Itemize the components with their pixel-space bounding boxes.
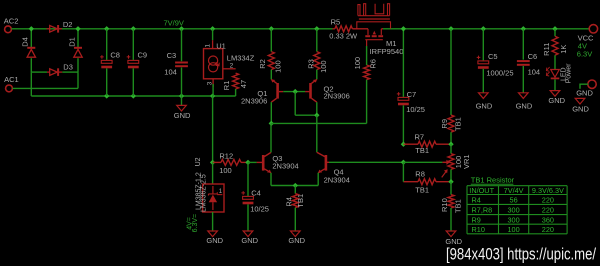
wire 7V/9V top rail left part	[11, 28, 332, 30]
wire 7V/9V top rail right part	[383, 28, 590, 30]
wire node to R10	[450, 182, 452, 195]
svg-text:C3: C3	[167, 51, 177, 60]
svg-text:AC2: AC2	[4, 17, 19, 26]
svg-text:6.3V: 6.3V	[577, 50, 592, 59]
svg-text:100: 100	[508, 225, 520, 234]
svg-text:R6: R6	[368, 59, 377, 69]
label GND below R4	[288, 236, 305, 245]
svg-text:C5: C5	[488, 52, 498, 61]
value TB1 of R8	[415, 185, 429, 194]
label R10	[440, 198, 449, 212]
wire R1 to bottom rail	[235, 89, 237, 96]
label U1	[216, 41, 226, 50]
net note 4V	[578, 41, 587, 50]
label Q4	[334, 167, 344, 176]
wire to Q3 base	[248, 161, 257, 163]
label R3	[306, 59, 315, 69]
wire Q1 base to Q2 base	[283, 91, 305, 93]
label GND below C6	[516, 102, 533, 111]
label C7	[407, 90, 417, 99]
label Q1	[257, 89, 267, 98]
net label GND at pin	[576, 89, 593, 98]
value 2N3904 of Q4	[324, 175, 350, 184]
wire D3 anode side	[31, 71, 47, 73]
wire rail to U1 pin 1	[212, 29, 214, 40]
transistor M1 P-MOSFET	[365, 29, 383, 46]
wire C7 to R7 node	[402, 105, 404, 144]
value TB1 of R9	[454, 117, 463, 131]
svg-text:R7,R8: R7,R8	[472, 206, 493, 215]
svg-text:220: 220	[542, 206, 554, 215]
svg-text:R4: R4	[284, 197, 293, 207]
wire D1 anode down	[77, 58, 79, 72]
op-amp U1 current source body	[204, 40, 236, 87]
U1 pin 1 label	[205, 44, 212, 48]
label U2	[195, 157, 202, 166]
heatsink symbol KK1	[357, 4, 391, 29]
wire C3 to bottom rail	[181, 68, 183, 97]
junction	[521, 26, 526, 31]
svg-text:LM334Z: LM334Z	[227, 53, 255, 62]
wire U1 pin3 to bottom rail	[212, 84, 214, 96]
junction	[481, 26, 486, 31]
wire rail down to C7	[402, 29, 404, 97]
transistor Q3	[257, 152, 271, 172]
label C3	[167, 51, 177, 60]
label R7	[415, 133, 425, 142]
wire rail to C6	[522, 29, 524, 60]
label R12	[219, 151, 233, 160]
svg-text:6.3V=: 6.3V=	[192, 214, 199, 233]
value 47 of R1	[239, 80, 248, 88]
R8 leads	[403, 181, 451, 183]
label AC2	[4, 17, 19, 26]
capacitor C6	[517, 60, 530, 66]
wire base bus down	[294, 92, 296, 116]
wire emitter rail	[271, 185, 318, 187]
junction	[131, 93, 136, 98]
capacitor C7	[397, 92, 409, 105]
resistor R8	[418, 179, 436, 185]
junction	[552, 26, 557, 31]
junction R8 right	[448, 179, 453, 184]
value 104 of C3	[164, 68, 177, 77]
wire down to R8	[402, 162, 404, 181]
value 0.33 2W of R5	[329, 32, 358, 41]
value 10/25 of C7	[406, 105, 425, 114]
svg-text:GND: GND	[576, 89, 593, 98]
wire R2 to Q1 emitter	[270, 70, 272, 80]
wire to VR1 wiper	[403, 161, 442, 163]
wire down to U2	[212, 162, 214, 184]
wire to R4	[294, 186, 296, 194]
label GND below LED	[548, 96, 565, 105]
table TB1 Resistor	[467, 176, 567, 234]
label C5	[488, 52, 498, 61]
svg-text:GND: GND	[572, 105, 589, 114]
R7 leads	[403, 143, 451, 145]
value TB1 of R10	[454, 199, 463, 213]
label R11	[542, 43, 551, 56]
connector pin AC2	[5, 26, 12, 33]
capacitor C4	[241, 191, 253, 204]
wire rail down to R9	[450, 29, 452, 115]
value 1000/25 of C5	[486, 68, 513, 77]
junction	[448, 26, 453, 31]
svg-text:100: 100	[219, 166, 232, 175]
wire Q4 base bus	[329, 161, 403, 163]
label AC1	[4, 75, 19, 84]
VR1 adjust arrow	[442, 169, 448, 177]
junction of base bus	[293, 89, 298, 94]
ground symbol near C3	[177, 105, 187, 111]
wire C5 to ground	[482, 69, 484, 93]
svg-text:104: 104	[164, 68, 177, 77]
capacitor C3	[175, 62, 188, 68]
svg-text:TB1: TB1	[415, 146, 429, 155]
svg-text:220: 220	[542, 196, 554, 205]
label R9	[440, 119, 449, 129]
svg-text:U1: U1	[216, 41, 226, 50]
svg-text:[984x403] https://upic.me/: [984x403] https://upic.me/	[446, 245, 596, 264]
wire C6 to ground	[522, 66, 524, 93]
wire LED to ground	[554, 79, 556, 90]
svg-text:IN/OUT: IN/OUT	[469, 186, 494, 195]
diode D2	[47, 25, 63, 33]
svg-text:R1: R1	[222, 81, 231, 91]
value TB1 of R7	[415, 146, 429, 155]
svg-text:D4: D4	[21, 37, 30, 47]
junction R7 right	[448, 142, 453, 147]
junction Q2 collector tie	[314, 113, 319, 118]
LED1 Power	[546, 67, 559, 78]
wire node to D4 cathode	[30, 29, 32, 48]
resistor R10	[448, 195, 454, 208]
transistor Q1	[271, 79, 283, 102]
label M1	[386, 39, 396, 48]
svg-text:104: 104	[528, 68, 541, 77]
svg-text:TB1: TB1	[415, 185, 429, 194]
wire R11 to LED	[554, 55, 556, 69]
svg-text:D2: D2	[63, 20, 73, 29]
wire rail to R2	[270, 29, 272, 52]
junction R4 top	[293, 183, 298, 188]
svg-text:2: 2	[230, 63, 234, 70]
junction	[314, 26, 319, 31]
svg-text:220: 220	[542, 225, 554, 234]
wire bridge to bottom rail	[30, 72, 32, 96]
label D3	[63, 63, 73, 72]
capacitor C9	[127, 55, 139, 68]
svg-text:GND: GND	[206, 236, 223, 245]
junction	[104, 26, 109, 31]
junction	[104, 93, 109, 98]
transistor Q4	[317, 152, 329, 173]
svg-text:IRFP9540: IRFP9540	[370, 47, 404, 56]
net label 7V/9V	[164, 19, 184, 28]
zener reference U2	[203, 184, 224, 212]
wire D3 cathode side	[62, 71, 78, 73]
label R4	[284, 197, 293, 207]
junction wiper bus	[401, 160, 406, 165]
svg-text:0.33 2W: 0.33 2W	[329, 32, 358, 41]
value TB1 of R4	[296, 194, 305, 208]
resistor R7	[418, 141, 436, 147]
wire down to AC1 line	[77, 72, 79, 88]
junction	[29, 26, 34, 31]
label GND below C4	[241, 236, 258, 245]
value 100 of R2	[273, 60, 282, 73]
svg-text:56: 56	[510, 196, 518, 205]
U1 pin 3 label	[206, 81, 213, 85]
wire node to VR1	[450, 144, 452, 153]
svg-text:AC1: AC1	[4, 75, 19, 84]
svg-text:1: 1	[205, 44, 212, 48]
ground symbol below C4	[243, 231, 253, 237]
wire to ground below C3	[181, 96, 183, 105]
svg-text:C7: C7	[407, 90, 417, 99]
svg-text:D1: D1	[67, 37, 76, 47]
wire R10 to ground	[450, 208, 452, 231]
wire base bus to Q2 collector node	[295, 114, 317, 116]
svg-text:GND: GND	[516, 102, 533, 111]
svg-text:GND: GND	[241, 236, 258, 245]
resistor R2	[268, 52, 274, 70]
junction	[131, 26, 136, 31]
value 10/25 of C4	[250, 205, 269, 214]
svg-text:47: 47	[239, 80, 248, 88]
wire to C9 plus	[132, 29, 134, 60]
junction	[269, 26, 274, 31]
label R6	[368, 59, 377, 69]
label LED	[560, 67, 567, 81]
resistor R6	[364, 65, 370, 80]
label GND below pin	[572, 105, 589, 114]
junction	[210, 26, 215, 31]
wire GND pin to ground	[580, 84, 588, 89]
value 104 of C6	[528, 68, 541, 77]
ground symbol below U2	[208, 231, 218, 237]
svg-text:3: 3	[206, 81, 213, 85]
transistor Q2	[305, 79, 317, 102]
label R8	[415, 169, 425, 178]
resistor R12	[221, 159, 241, 165]
wire R4 to ground	[294, 208, 296, 231]
svg-text:2N3906: 2N3906	[241, 97, 267, 106]
label GND below R10	[445, 237, 462, 246]
svg-text:100: 100	[273, 60, 282, 73]
svg-text:1K: 1K	[559, 45, 568, 54]
wire bus down to Q3 collector	[270, 123, 272, 152]
svg-text:D3: D3	[63, 63, 73, 72]
value 100 of R12	[219, 166, 232, 175]
diode D1	[74, 48, 82, 57]
svg-text:C8: C8	[110, 51, 120, 60]
junction Q1 collector bus	[269, 121, 274, 126]
U2 pin 1 label	[219, 189, 223, 195]
junction R7 left	[401, 142, 406, 147]
diode D3	[47, 68, 62, 76]
svg-text:C6: C6	[528, 52, 538, 61]
wire Q3 base node down to C4	[247, 162, 249, 196]
label D1	[67, 37, 76, 47]
value 100 of VR1	[454, 156, 463, 169]
value IRFP9540 of M1	[370, 47, 404, 56]
svg-text:R11: R11	[542, 43, 551, 56]
diode D4	[27, 48, 35, 57]
value 100 of R6	[353, 57, 362, 70]
svg-text:R9: R9	[440, 119, 449, 129]
value LM385Z-1.2 of U2	[195, 172, 202, 210]
resistor R11	[552, 36, 558, 55]
ground symbol below LED	[550, 91, 560, 97]
svg-text:R4: R4	[472, 196, 481, 205]
ground symbol below C5	[479, 93, 489, 99]
wire D4 anode down	[30, 58, 32, 72]
label R1	[222, 81, 231, 91]
svg-text:7V/9V: 7V/9V	[164, 19, 184, 28]
junction	[179, 93, 184, 98]
R5 leads	[333, 28, 369, 30]
svg-text:GND: GND	[476, 102, 493, 111]
wire Q4 emitter down	[317, 173, 319, 186]
svg-text:R9: R9	[472, 215, 481, 224]
value 2N3904 of Q3	[272, 162, 298, 171]
value LM336Z-2.5 of U2	[200, 174, 207, 212]
value 1K of R11	[559, 45, 568, 54]
svg-text:7V/4V: 7V/4V	[504, 186, 524, 195]
wire C9 to bottom rail	[132, 68, 134, 96]
svg-text:GND: GND	[288, 236, 305, 245]
R12 leads	[213, 161, 248, 163]
resistor R4	[292, 194, 298, 208]
ground symbol below R10	[446, 231, 456, 237]
junction	[401, 26, 406, 31]
svg-text:R8: R8	[415, 169, 425, 178]
connector pin AC1	[6, 85, 13, 92]
wire Q1 collector down	[270, 102, 272, 123]
label C9	[138, 51, 148, 60]
wire R6 top to M1 gate	[366, 46, 368, 65]
svg-text:R7: R7	[415, 133, 425, 142]
value 100 of R3	[319, 60, 328, 73]
svg-text:R10: R10	[472, 225, 485, 234]
label Q2	[324, 84, 334, 93]
resistor R9	[448, 115, 454, 132]
wire to C8 plus	[106, 29, 108, 60]
wire VR1 to node	[450, 169, 452, 181]
wire Q3 emitter down	[270, 173, 272, 186]
value LM334Z of U1	[227, 53, 255, 62]
junction R12 right / Q3 base	[245, 160, 250, 165]
label VCC	[578, 33, 594, 42]
ground symbol below C6	[519, 93, 529, 99]
junction R12 left	[210, 160, 215, 165]
capacitor C8	[100, 55, 112, 68]
svg-text:300: 300	[508, 206, 520, 215]
label C8	[110, 51, 120, 60]
svg-text:U2: U2	[195, 157, 202, 166]
label VR1	[462, 154, 471, 169]
svg-text:10/25: 10/25	[406, 105, 425, 114]
svg-text:R3: R3	[306, 59, 315, 69]
label C4	[251, 188, 261, 197]
junction	[179, 26, 184, 31]
VR1 wiper arrow	[442, 160, 450, 165]
wire to C3	[181, 29, 183, 61]
wire down to Q4 collector	[316, 115, 318, 152]
svg-text:GND: GND	[174, 111, 191, 120]
U1 pin 2 label	[230, 63, 234, 70]
svg-text:9.3V/6.3V: 9.3V/6.3V	[532, 186, 564, 195]
svg-text:TB1: TB1	[296, 194, 305, 208]
wire bottom rail	[31, 95, 235, 97]
label GND below C3	[174, 111, 191, 120]
ground symbol below R4	[291, 231, 301, 237]
potentiometer VR1	[448, 154, 454, 170]
resistor R1	[233, 73, 239, 89]
wire R3 to Q2 emitter	[316, 70, 318, 80]
label GND below U2	[206, 236, 223, 245]
ground symbol below GND pin	[575, 98, 585, 104]
net note 6.3V=	[192, 214, 199, 233]
svg-text:R2: R2	[258, 59, 267, 69]
label Power	[566, 63, 573, 84]
svg-text:R12: R12	[219, 151, 233, 160]
svg-text:1000/25: 1000/25	[486, 68, 513, 77]
value 2N3906 of Q2	[324, 92, 350, 101]
svg-text:2N3904: 2N3904	[324, 175, 350, 184]
svg-text:360: 360	[542, 215, 554, 224]
net note 4V=	[187, 217, 194, 230]
capacitor C5	[477, 56, 489, 69]
wire AC1 to bridge	[12, 87, 78, 89]
wire rail to C5	[482, 29, 484, 61]
junction	[75, 26, 80, 31]
svg-text:100: 100	[353, 57, 362, 70]
svg-text:VR1: VR1	[462, 154, 471, 169]
wire rail to R11	[554, 29, 556, 36]
watermark upic.me	[446, 245, 596, 264]
svg-text:R5: R5	[331, 17, 341, 26]
wire collector bus to R6	[271, 122, 366, 124]
svg-text:Power: Power	[566, 63, 573, 84]
svg-text:10/25: 10/25	[250, 205, 269, 214]
resistor R3	[314, 52, 320, 70]
connector pin GND	[588, 80, 596, 88]
svg-text:TB1: TB1	[454, 117, 463, 131]
label R5	[331, 17, 341, 26]
svg-text:LM336Z-2.5: LM336Z-2.5	[200, 174, 207, 212]
label C6	[528, 52, 538, 61]
wire C8 to bottom rail	[106, 68, 108, 96]
svg-text:TB1 Resistor: TB1 Resistor	[471, 176, 515, 185]
svg-text:2N3904: 2N3904	[272, 162, 298, 171]
wire U2 to ground	[212, 212, 214, 231]
label Q3	[272, 154, 282, 163]
label D2	[63, 20, 73, 29]
value 2N3906 of Q1	[241, 97, 267, 106]
wire R6 bottom	[366, 80, 368, 124]
wire C4 to ground	[247, 204, 249, 230]
wire R9 to node	[450, 132, 452, 144]
junction	[210, 93, 215, 98]
wire node to D1 cathode	[77, 29, 79, 48]
wire bottom rail down to R12 node	[212, 96, 214, 162]
label R2	[258, 59, 267, 69]
resistor R5	[335, 26, 353, 32]
wire Q2 collector down	[316, 102, 318, 115]
